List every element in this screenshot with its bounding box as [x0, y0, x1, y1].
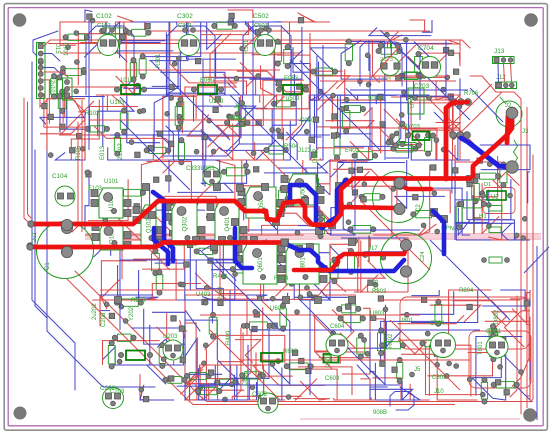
wire — [299, 284, 330, 300]
wire — [262, 95, 284, 110]
thick red trace branch y254 — [294, 248, 406, 270]
wire — [310, 95, 316, 100]
wire — [341, 238, 405, 252]
resistor body — [464, 200, 482, 208]
pad — [181, 282, 186, 287]
wire — [71, 100, 99, 160]
wire — [91, 22, 160, 43]
pad — [363, 253, 368, 258]
wire — [256, 352, 293, 376]
resistor body — [217, 22, 233, 29]
wire thin red bottom-right frame vertical — [510, 296, 517, 397]
pad — [168, 141, 173, 146]
wire — [92, 298, 156, 301]
pad — [169, 96, 174, 101]
svg-text:C602: C602 — [252, 391, 268, 398]
wire — [526, 351, 530, 396]
pad — [276, 128, 281, 133]
pad — [295, 230, 300, 235]
wire — [189, 295, 272, 311]
thick red trace right riser to via — [473, 114, 512, 176]
wire — [330, 202, 356, 235]
wire — [169, 160, 205, 193]
pad — [305, 286, 310, 291]
pad — [223, 397, 228, 402]
pad — [358, 79, 363, 84]
pad — [391, 64, 396, 69]
wire — [185, 323, 244, 390]
resistor body — [496, 382, 514, 388]
pad — [119, 304, 124, 309]
pad — [378, 94, 383, 99]
pad — [207, 118, 212, 123]
wire long red horizontals mid — [90, 119, 300, 121]
wire blue fanout from J15 pin 4 — [44, 68, 62, 76]
wire — [482, 290, 530, 306]
wire thin red bottom-left diagonal 2 — [67, 279, 193, 405]
wire — [107, 259, 176, 300]
pad — [184, 262, 189, 267]
wire — [85, 233, 113, 235]
pad — [169, 376, 174, 381]
wire — [458, 208, 470, 236]
wire red J13 to J12 pin3 — [511, 64, 512, 83]
wire — [331, 95, 397, 100]
svg-text:T801: T801 — [478, 341, 484, 355]
svg-text:R706: R706 — [464, 91, 479, 97]
wire — [341, 40, 388, 79]
wire — [401, 95, 454, 96]
wire thin red bottom horizontal 2 — [193, 404, 455, 406]
wire — [370, 238, 408, 275]
wire — [334, 398, 370, 400]
wire — [528, 172, 530, 203]
svg-text:Y202: Y202 — [129, 306, 135, 321]
svg-text:D601: D601 — [326, 353, 332, 368]
wire — [232, 396, 301, 400]
wire — [363, 308, 370, 352]
resistor body — [177, 102, 184, 119]
transistor C202 — [103, 388, 124, 409]
pad — [334, 260, 339, 265]
via pad C1 bottom overlay — [61, 246, 72, 257]
wire — [251, 213, 310, 226]
wire — [337, 160, 405, 163]
svg-text:C302: C302 — [177, 13, 193, 20]
pad — [203, 300, 208, 305]
wire — [414, 81, 447, 100]
pad — [381, 255, 386, 260]
pad — [402, 90, 407, 95]
wire — [166, 276, 235, 300]
pad — [134, 204, 139, 209]
wire — [317, 95, 361, 153]
wire — [510, 292, 530, 299]
wire — [124, 60, 178, 89]
wire — [314, 219, 330, 235]
pad — [357, 167, 362, 172]
resistor body — [425, 340, 444, 347]
resistor R603 bright body — [261, 353, 283, 362]
capacitor C1023 can — [381, 57, 400, 76]
wire long blue diagonals — [230, 95, 330, 195]
pad — [137, 109, 142, 114]
wire — [202, 397, 238, 400]
pad — [521, 236, 526, 241]
pad — [250, 385, 255, 390]
wire — [473, 195, 514, 240]
pad — [415, 134, 420, 139]
pad — [194, 149, 199, 154]
wire — [425, 190, 451, 213]
wire — [391, 43, 452, 75]
wire — [317, 95, 332, 122]
wire — [317, 56, 354, 100]
via pad C1 top overlay — [61, 219, 72, 230]
pad — [120, 34, 125, 39]
pad — [86, 172, 91, 177]
IC Q801 — [286, 244, 319, 284]
wire — [196, 106, 256, 126]
resistor body — [227, 168, 246, 176]
resistor body — [159, 348, 165, 364]
pad — [306, 368, 311, 373]
resistor body — [296, 175, 312, 183]
wire — [163, 160, 175, 173]
wire — [218, 333, 244, 401]
thick red trace vertical x446 — [446, 102, 456, 179]
pad at thick red left tip 1 — [28, 221, 34, 227]
wire — [118, 265, 149, 300]
svg-text:2u202: 2u202 — [92, 303, 98, 320]
resistor body — [152, 253, 160, 270]
wire — [262, 225, 326, 235]
pad — [298, 18, 303, 23]
pad — [467, 181, 472, 186]
wire — [212, 300, 269, 323]
wire — [201, 129, 284, 150]
pad — [447, 361, 452, 366]
svg-text:C205: C205 — [101, 312, 107, 327]
wire — [140, 374, 150, 400]
wire — [195, 273, 228, 300]
svg-text:u503: u503 — [286, 96, 300, 102]
wire thin red vertical left edge 1 — [24, 98, 29, 223]
pad — [413, 195, 418, 200]
wire — [185, 320, 238, 380]
pad — [388, 139, 393, 144]
pad — [385, 32, 390, 37]
resistor body — [425, 138, 432, 152]
svg-text:E060: E060 — [200, 78, 215, 84]
wire — [187, 22, 237, 59]
wire — [261, 257, 275, 300]
svg-text:C502: C502 — [253, 13, 269, 20]
wire — [310, 40, 343, 81]
wire — [96, 95, 127, 108]
pad — [308, 293, 313, 298]
pad — [383, 307, 388, 312]
wire green vertical from J12 to pad — [500, 97, 506, 104]
wire — [153, 134, 225, 160]
wire — [228, 74, 295, 95]
resistor body — [311, 179, 319, 194]
resistor body — [259, 253, 273, 261]
resistor body — [56, 80, 62, 94]
wire — [150, 185, 206, 210]
pad — [391, 187, 396, 192]
wire thin red rounded outline bottom-right block 1 — [400, 297, 529, 349]
wire — [149, 22, 188, 61]
svg-text:R102: R102 — [85, 111, 100, 117]
pad — [198, 385, 203, 390]
wire blue J13 to J12 — [497, 64, 500, 83]
wire — [326, 121, 374, 129]
resistor body — [316, 68, 333, 75]
wire — [398, 42, 428, 68]
pad — [390, 134, 395, 139]
wire — [397, 315, 464, 323]
wire — [472, 337, 506, 400]
thick blue trace TB4 center-right loop — [290, 185, 322, 228]
wire thin red vertical left edge 2 — [28, 102, 32, 218]
wire — [191, 382, 256, 400]
pad — [172, 210, 177, 215]
wire — [142, 240, 184, 269]
wire thin red rounded outline bottom-right block 2 — [469, 331, 531, 388]
wire — [132, 95, 169, 152]
wire — [434, 95, 453, 131]
wire — [228, 21, 281, 23]
resistor body — [435, 304, 442, 321]
resistor body — [404, 72, 418, 80]
pad — [234, 76, 239, 81]
header H1 dark outline — [473, 185, 475, 233]
resistor body — [245, 372, 261, 379]
pad — [394, 131, 399, 136]
wire — [194, 95, 211, 122]
wire — [145, 22, 194, 30]
wire — [267, 220, 278, 235]
resistor body — [139, 59, 146, 74]
wire — [152, 32, 179, 95]
wire — [430, 305, 481, 323]
pad — [519, 370, 524, 375]
wire — [289, 50, 310, 81]
wire — [84, 120, 86, 160]
wire — [310, 134, 323, 160]
wire — [327, 234, 330, 236]
wire — [436, 80, 452, 100]
wire — [338, 41, 385, 100]
wire — [407, 103, 452, 160]
wire — [505, 311, 531, 347]
wire — [467, 179, 511, 219]
wire — [340, 333, 356, 364]
pad — [235, 112, 240, 117]
pad — [60, 124, 65, 129]
svg-text:R301: R301 — [156, 53, 162, 68]
pad — [331, 93, 336, 98]
thick red trace branch to cap pad — [341, 207, 394, 208]
pad — [110, 194, 115, 199]
wire — [452, 301, 506, 329]
resistor body — [209, 317, 217, 334]
wire — [144, 309, 185, 365]
wire — [90, 107, 139, 134]
resistor body — [253, 247, 269, 255]
pad — [362, 338, 367, 343]
wire — [256, 95, 311, 109]
wire — [234, 328, 241, 398]
transistor C605 — [326, 334, 348, 356]
pad — [319, 217, 324, 222]
wire — [47, 99, 85, 151]
pad — [304, 129, 309, 134]
svg-text:U403: U403 — [196, 292, 211, 298]
wire — [501, 224, 530, 240]
transistor C801 — [486, 336, 508, 358]
wire blue diagonal under J12 — [470, 88, 503, 122]
wire — [219, 218, 278, 235]
wire — [156, 131, 211, 144]
resistor body — [168, 377, 182, 384]
via pad large left — [395, 179, 406, 190]
resistor body — [156, 275, 163, 290]
pad — [61, 66, 66, 71]
wire — [480, 145, 530, 170]
resistor body — [489, 329, 497, 346]
pad — [48, 153, 53, 158]
pad — [498, 364, 503, 369]
svg-text:U101: U101 — [104, 179, 119, 185]
pad — [80, 146, 85, 151]
svg-text:J3: J3 — [522, 129, 529, 135]
pad — [312, 295, 317, 300]
wire — [482, 183, 499, 233]
wire — [203, 240, 263, 299]
svg-text:U303: U303 — [209, 99, 224, 105]
svg-text:J15: J15 — [54, 44, 60, 54]
wire — [256, 121, 290, 160]
wire — [163, 144, 239, 156]
pad — [187, 242, 192, 247]
wire — [459, 78, 461, 100]
wire — [63, 90, 85, 123]
pad — [514, 233, 519, 238]
wire — [122, 224, 181, 235]
wire — [78, 34, 127, 85]
via pad large top-right 1 — [506, 107, 518, 119]
wire thin red diagonal top-right border 1 — [446, 84, 492, 130]
pad — [203, 343, 208, 348]
pad — [142, 227, 147, 232]
wire — [529, 379, 530, 400]
net highlight band across middle — [85, 234, 541, 240]
wire — [296, 379, 318, 401]
wire — [371, 384, 410, 400]
svg-text:H1: H1 — [479, 214, 487, 220]
wire — [313, 316, 336, 339]
pad — [193, 201, 198, 206]
wire — [498, 172, 520, 186]
wire blue fanout from J15 top — [33, 31, 58, 56]
wire — [298, 367, 352, 395]
svg-text:C704: C704 — [418, 45, 434, 52]
pad — [386, 140, 391, 145]
pad — [309, 137, 314, 142]
svg-text:R203: R203 — [131, 298, 146, 304]
pad — [289, 282, 294, 287]
wire blue fanout from J15 pin 2 — [44, 54, 60, 62]
pad — [500, 336, 505, 341]
resistor body — [175, 107, 182, 126]
thick blue trace lower interchange — [285, 244, 404, 272]
wire — [359, 238, 408, 292]
resistor body — [105, 28, 124, 34]
svg-text:D502: D502 — [313, 148, 319, 163]
pad — [117, 40, 122, 45]
wire — [208, 126, 240, 147]
wire — [488, 180, 502, 240]
pad — [244, 163, 249, 168]
svg-text:C703: C703 — [414, 83, 430, 90]
wire — [476, 337, 522, 396]
resistor body — [317, 216, 325, 234]
pad — [269, 201, 274, 206]
wire — [330, 208, 400, 235]
resistor body — [472, 183, 480, 198]
pad — [202, 361, 207, 366]
IC U702 — [408, 88, 424, 114]
wire — [331, 159, 371, 162]
wire — [231, 365, 270, 385]
pad — [299, 358, 304, 363]
svg-text:C102: C102 — [96, 13, 112, 20]
wire — [411, 99, 460, 130]
pad — [154, 177, 159, 182]
wire thin red top horizontal 1 — [44, 40, 470, 48]
svg-text:R105: R105 — [76, 145, 82, 160]
pad at snake junction — [281, 239, 288, 246]
wire — [163, 96, 196, 158]
wire — [210, 95, 222, 107]
wire — [103, 95, 138, 147]
wire — [467, 236, 515, 240]
svg-text:R402: R402 — [228, 116, 243, 122]
wire — [40, 80, 49, 124]
wire — [357, 365, 370, 400]
pad — [441, 87, 446, 92]
svg-text:C601: C601 — [243, 371, 249, 386]
pad — [448, 94, 453, 99]
pad — [421, 223, 426, 228]
wire red diagonal through C1023 — [371, 46, 400, 78]
wire — [177, 365, 216, 386]
IC Q401 — [215, 202, 239, 245]
svg-text:E103: E103 — [88, 186, 103, 192]
wire — [244, 31, 262, 95]
wire thin red top horizontal 3 — [150, 30, 430, 32]
wire — [195, 80, 304, 95]
wire — [293, 47, 310, 95]
wire — [210, 147, 233, 160]
diode D201 bright body — [126, 351, 145, 361]
wire — [216, 49, 272, 78]
resistor body — [124, 189, 141, 196]
resistor body — [249, 322, 267, 330]
wire — [436, 123, 461, 134]
